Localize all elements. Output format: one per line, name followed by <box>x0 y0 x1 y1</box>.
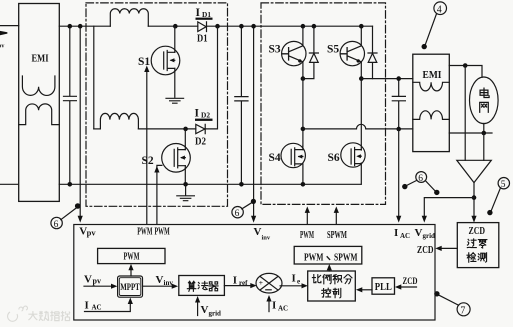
node: D3 top <box>312 24 317 29</box>
svg-text:I: I <box>85 300 89 312</box>
wire: mixer to PI arrow <box>280 285 302 287</box>
wire: lower boost branch tap <box>93 26 95 129</box>
wire: to L2 <box>94 128 101 130</box>
svg-text:SPWM: SPWM <box>327 230 347 241</box>
watermark <box>8 306 70 321</box>
wire: branch down to comparator <box>464 66 466 161</box>
svg-text:pv: pv <box>93 277 101 286</box>
mixer (summing) circle <box>256 273 282 293</box>
wire: EMI2 out top <box>449 66 482 78</box>
svg-text:PWM: PWM <box>304 252 324 263</box>
wire: D1 cathode to DC bus <box>207 25 373 27</box>
wire: L2 to D2 <box>138 128 195 130</box>
circled 7 <box>457 303 470 316</box>
label ID2 <box>195 107 213 121</box>
svg-text:S5: S5 <box>327 44 339 56</box>
EMI1 winding upper <box>22 76 55 95</box>
svg-text:e: e <box>297 278 300 286</box>
node: C1 bottom junction <box>68 182 73 187</box>
MPPT block <box>118 276 143 297</box>
transistor S5 (with circle) <box>340 41 364 65</box>
wire: MPPT to PWM arrow <box>130 270 132 276</box>
PLL block <box>372 278 395 294</box>
wire: right mid to EMI2 <box>361 78 413 80</box>
node: S2 source at rail <box>183 182 188 187</box>
node: boost output junction <box>215 24 220 29</box>
wire: IAC to mixer arrow <box>268 301 270 312</box>
wire: ZCD output arrow to control box <box>442 247 458 249</box>
svg-text:PWM: PWM <box>124 252 140 263</box>
svg-text:EMI: EMI <box>32 54 49 65</box>
transistor S3 (with circle) <box>282 41 306 65</box>
control box (7) <box>74 225 435 321</box>
circled 4 <box>434 2 447 15</box>
wire: PV input top <box>0 25 19 27</box>
svg-text:6: 6 <box>54 220 59 230</box>
circled 6 right <box>416 172 427 183</box>
circled 6 mid <box>232 207 243 218</box>
input arrow Ipv <box>0 31 7 35</box>
svg-text:AC: AC <box>278 305 288 313</box>
svg-text:EMI: EMI <box>423 69 442 81</box>
svg-text:6: 6 <box>235 209 240 219</box>
wire: Vgrid tap <box>424 198 474 217</box>
node: left leg mid upper <box>301 76 306 81</box>
svg-text:V: V <box>415 227 423 239</box>
label Vpv (mppt input) <box>84 274 101 286</box>
svg-text:PLL: PLL <box>375 282 392 293</box>
transistor S1 (MOSFET) <box>151 46 180 75</box>
label 检测 <box>467 253 476 262</box>
wire: PLL to PI arrow <box>362 289 372 291</box>
capacitor C1 (PV input cap) <box>64 26 77 184</box>
node: pointer dot on Vinv line <box>251 199 256 204</box>
wire: right leg <box>360 79 362 185</box>
algorithm block 算法器 <box>179 276 225 296</box>
wire: PV input bottom rail left stub <box>0 183 18 185</box>
svg-text:D1: D1 <box>197 34 208 45</box>
label Vgrid (algorithm input) <box>201 304 222 318</box>
svg-text:I: I <box>292 273 296 285</box>
wire: MPPT to algorithm arrow <box>143 285 173 287</box>
label Iref <box>233 274 248 287</box>
svg-text:7: 7 <box>460 306 465 317</box>
svg-text:5: 5 <box>501 180 506 190</box>
label ID1 <box>196 7 213 20</box>
PWM block <box>98 248 165 263</box>
wire: SPWM arrow to inverter box <box>335 213 337 224</box>
wire: IAC to MPPT bottom arrow <box>85 304 131 312</box>
node: C3 bottom <box>396 127 401 132</box>
boost converter dash-dot box <box>86 3 228 206</box>
label Ie <box>292 273 301 286</box>
label Vinv (top) <box>254 226 271 241</box>
wire: oval bottom stub <box>483 123 485 133</box>
inverter dash-dot box <box>261 3 386 205</box>
svg-text:S6: S6 <box>328 152 340 164</box>
transistor S2 (MOSFET) <box>162 144 191 173</box>
circled 6 left <box>51 217 62 228</box>
node: S4 source at rail <box>301 182 306 187</box>
wire: Vpv sense line <box>79 26 81 216</box>
svg-text:S2: S2 <box>142 155 154 167</box>
wire: PWM arrow to inverter box <box>306 213 308 224</box>
svg-text:S3: S3 <box>269 44 281 56</box>
node: S2 drain junction <box>183 127 188 132</box>
svg-text:PWM: PWM <box>300 230 314 241</box>
capacitor C3 (AC filter) <box>392 79 405 129</box>
svg-text:V: V <box>84 274 92 286</box>
label Vpv (top) <box>79 225 96 237</box>
svg-text:ZCD: ZCD <box>469 226 486 237</box>
svg-text:D2: D2 <box>201 111 210 120</box>
svg-text:ZCD: ZCD <box>403 277 418 287</box>
diode D1 <box>198 22 207 32</box>
svg-text:MPPT: MPPT <box>120 283 140 293</box>
label 过零 <box>467 239 476 248</box>
label Vgrid (top) <box>415 227 436 240</box>
diode D2 <box>196 124 205 133</box>
inductor L1 (upper boost) <box>110 9 148 26</box>
wire: PWM arrow to S1 gate <box>146 72 148 225</box>
EMI2 winding upper <box>413 82 450 91</box>
node: grid branch <box>463 63 468 68</box>
node: right leg mid upper <box>359 76 364 81</box>
label IAC (mppt input) <box>85 300 102 312</box>
wire: PI to PWM/SPWM arrow <box>328 270 330 271</box>
circled 5 <box>498 178 509 189</box>
wire: Vgrid to algorithm arrow <box>197 302 199 316</box>
EMI filter 1 box <box>19 4 60 202</box>
svg-text:I: I <box>195 107 200 119</box>
wire: Vinv sense line <box>253 26 255 216</box>
wire: bottom rail (EMI1 to bridge) <box>59 183 361 185</box>
node: pointer dot on Vpv line <box>75 203 81 209</box>
PI control block 比例积分控制 <box>308 271 356 301</box>
svg-text:pv: pv <box>0 44 4 50</box>
wire: comparator output <box>473 183 475 217</box>
node: C2 top <box>239 24 244 29</box>
svg-text:PWM: PWM <box>155 226 171 237</box>
wire: left leg <box>302 79 304 146</box>
PWM SPWM block <box>294 246 362 264</box>
grid oval 电网 <box>470 77 499 124</box>
ground (S2 source) <box>177 184 195 200</box>
svg-text:D2: D2 <box>195 137 206 148</box>
EMI filter 2 box <box>413 54 450 151</box>
svg-text:V: V <box>254 226 262 238</box>
svg-text:grid: grid <box>209 310 222 318</box>
transistor S4 (MOSFET) <box>281 143 305 167</box>
svg-text:V: V <box>201 304 209 316</box>
svg-text:S4: S4 <box>269 152 281 164</box>
node: oval bottom junction <box>482 131 487 136</box>
svg-text:PWM: PWM <box>137 226 153 237</box>
diode D3 (S3 freewheel) <box>303 26 319 78</box>
label IAC (mixer input) <box>272 300 288 313</box>
svg-text:6: 6 <box>418 174 423 184</box>
node: S1 drain junction <box>173 24 178 29</box>
wire: EMI2 out bottom <box>449 132 492 134</box>
svg-text:+: + <box>259 278 263 287</box>
inductor L2 (lower boost) <box>100 113 138 128</box>
diode D4 (S5 freewheel) <box>368 26 377 78</box>
wire: D2 cathode up to DC bus <box>205 26 217 129</box>
wire: L1 to D1 <box>148 25 198 27</box>
svg-text:I: I <box>196 7 201 19</box>
wire: EMI1 out top to boost <box>59 25 110 27</box>
node: Vinv sense top <box>251 24 256 29</box>
svg-text:4: 4 <box>437 4 442 15</box>
wire: Vpv to MPPT arrow <box>84 285 112 287</box>
label 电网 <box>480 88 489 97</box>
wire: algorithm to mixer arrow <box>224 285 250 287</box>
svg-text:I: I <box>233 274 237 286</box>
svg-text:inv: inv <box>262 235 271 242</box>
svg-text:V: V <box>156 274 164 286</box>
svg-text:AC: AC <box>92 304 102 312</box>
node: C2 bottom <box>239 182 244 187</box>
svg-text:ZCD: ZCD <box>417 245 434 256</box>
wire: IAC sense line <box>398 129 400 216</box>
svg-text:pv: pv <box>87 227 97 237</box>
label Vinv (algorithm input) <box>156 274 174 287</box>
node: S3 collector <box>301 24 306 29</box>
EMI1 winding lower <box>19 104 60 125</box>
comparator triangle <box>457 160 492 182</box>
svg-text:I: I <box>394 227 398 239</box>
wire: oval junction down to comparator <box>483 133 485 160</box>
transistor S6 (MOSFET) <box>341 143 365 167</box>
svg-text:SPWM: SPWM <box>334 252 358 263</box>
svg-text:I: I <box>272 300 276 312</box>
node: AC out junction <box>301 127 306 132</box>
capacitor C2 (DC link) <box>235 26 248 184</box>
EMI2 winding lower <box>413 111 450 120</box>
svg-text:AC: AC <box>400 232 410 240</box>
node: C3 top <box>396 76 401 81</box>
wire: AC out with hop over right leg <box>303 124 413 129</box>
node: S5 collector <box>359 24 364 29</box>
ZCD detection box <box>457 223 499 268</box>
ground (S1 source) <box>166 98 184 103</box>
svg-text:grid: grid <box>423 232 436 240</box>
node: Vpv sense top junction <box>78 24 83 29</box>
label IAC (top) <box>394 227 410 240</box>
node: Vgrid tap junction <box>472 195 477 200</box>
svg-text:S1: S1 <box>138 56 150 68</box>
node: C1 top junction <box>68 24 73 29</box>
wire: PWM arrow to S2 gate <box>157 165 162 224</box>
wire: ZCD to PLL arrow <box>401 286 416 288</box>
